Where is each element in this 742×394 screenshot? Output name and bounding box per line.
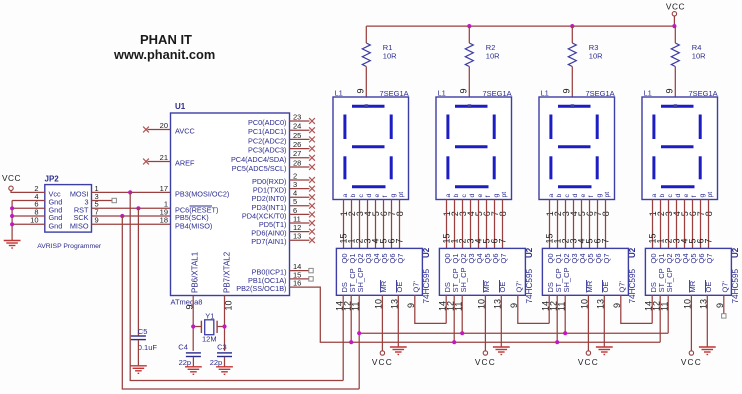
svg-text:Q7': Q7' xyxy=(721,280,730,292)
svg-text:c: c xyxy=(564,194,571,198)
wire ST_CP bus from U1 PB2 xyxy=(290,287,661,342)
wire U1 PD5(T1) stub xyxy=(290,222,310,224)
wire Q7' chip4 stub xyxy=(723,295,725,313)
no-connect x PD5(T1) xyxy=(309,220,315,226)
svg-text:b: b xyxy=(350,194,357,198)
display segments col1 xyxy=(345,106,391,187)
wire U1 PC1(ADC1) stub xyxy=(290,129,310,131)
display common pin pad col3 xyxy=(571,104,575,108)
wire display seg g to 595 col3 xyxy=(597,200,599,249)
svg-text:e: e xyxy=(580,194,587,198)
wire U1 PD2(INT0) stub xyxy=(290,196,310,198)
resistor R1 xyxy=(362,43,370,67)
wire display seg c to 595 col2 xyxy=(462,200,464,249)
wire display seg d to 595 col2 xyxy=(470,200,472,249)
svg-text:AVRISP Programmer: AVRISP Programmer xyxy=(37,243,102,250)
svg-text:e: e xyxy=(374,194,381,198)
display common pin pad col2 xyxy=(468,104,472,108)
svg-text:e: e xyxy=(477,194,484,198)
wire C3 to ground xyxy=(224,357,226,367)
wire Q7' chip1 to DS chip2 xyxy=(415,295,446,323)
wire U1 PC4(ADC4/SDA) stub xyxy=(290,157,310,159)
svg-text:74HC595: 74HC595 xyxy=(422,268,431,303)
unconnected square PB0 xyxy=(309,268,313,272)
connector JP2 box xyxy=(45,185,92,233)
wire display seg f to 595 col4 xyxy=(692,200,694,249)
junction rail R3 xyxy=(570,24,574,28)
svg-text:PB7/XTAL2: PB7/XTAL2 xyxy=(223,251,232,293)
svg-text:f: f xyxy=(691,196,698,198)
no-connect x PC3(ADC3) xyxy=(309,146,315,152)
svg-text:U2: U2 xyxy=(525,247,534,258)
wire U1 PC5(ADC5/SCL) stub xyxy=(290,166,310,168)
wire display seg e to 595 col2 xyxy=(478,200,480,249)
ground OE col2 xyxy=(493,347,510,355)
overline RESET xyxy=(190,205,213,207)
junction SH bus chip3 xyxy=(563,331,567,335)
wire JP2 Vcc pin2 to VCC xyxy=(11,191,45,193)
svg-text:74HC595: 74HC595 xyxy=(731,268,740,303)
svg-text:18: 18 xyxy=(160,216,168,225)
no-connect x PC4(ADC4/SDA) xyxy=(309,155,315,161)
junction XTAL2 crystal xyxy=(222,324,226,328)
wire SCK net JP2 to U1 PB5 xyxy=(92,215,171,217)
display segments col4 xyxy=(654,106,700,187)
svg-text:a: a xyxy=(651,194,658,198)
svg-text:28: 28 xyxy=(293,158,301,167)
svg-text:JP2: JP2 xyxy=(45,175,60,184)
wire VCC stem xyxy=(673,16,675,26)
ground OE col1 xyxy=(390,347,407,355)
wire DS chip2 down xyxy=(445,295,447,323)
svg-text:20: 20 xyxy=(160,121,168,130)
wire display seg f to 595 col1 xyxy=(383,200,385,249)
wire U1 PD4(XCK/T0) stub xyxy=(290,213,310,215)
ground JP2 xyxy=(4,241,21,249)
wire display seg b to 595 col1 xyxy=(351,200,353,249)
svg-text:www.phanit.com: www.phanit.com xyxy=(113,47,215,62)
resistor R3 xyxy=(568,43,576,67)
svg-text:SH_CP: SH_CP xyxy=(459,267,468,292)
no-connect x PD3(INT1) xyxy=(309,203,315,209)
wire display seg c to 595 col4 xyxy=(668,200,670,249)
svg-text:9: 9 xyxy=(459,88,469,93)
wire U1 PD6(AIN0) stub xyxy=(290,231,310,233)
svg-text:13: 13 xyxy=(293,232,301,241)
wire DS chip3 down xyxy=(548,295,550,323)
svg-text:PC5(ADC5/SCL): PC5(ADC5/SCL) xyxy=(232,164,287,173)
svg-text:10R: 10R xyxy=(383,52,397,61)
wire MOSI net JP2 to U1 PB3 xyxy=(92,191,171,193)
wire display seg f to 595 col3 xyxy=(589,200,591,249)
svg-text:d: d xyxy=(366,194,373,198)
svg-text:d: d xyxy=(469,194,476,198)
svg-text:Y1: Y1 xyxy=(205,311,214,320)
wire VCC rail xyxy=(366,25,674,27)
svg-text:21: 21 xyxy=(160,153,168,162)
wire MR to VCC col1 xyxy=(381,295,383,351)
display common pin pad col1 xyxy=(365,104,369,108)
svg-text:10R: 10R xyxy=(589,52,603,61)
wire crystal left lead xyxy=(193,326,201,328)
svg-text:L1: L1 xyxy=(541,88,549,97)
svg-text:PB6/XTAL1: PB6/XTAL1 xyxy=(191,251,200,293)
wire SH_CP bus xyxy=(359,332,668,334)
shift register U2 74HC595 (column 1) xyxy=(336,248,422,295)
svg-text:pt: pt xyxy=(707,192,714,198)
wire SH chip1 down xyxy=(358,295,360,389)
wire rail to R2 xyxy=(468,26,470,43)
svg-text:7SEG1A: 7SEG1A xyxy=(689,89,718,98)
svg-text:PC3(ADC3): PC3(ADC3) xyxy=(248,146,287,155)
display common pin pad col4 xyxy=(674,104,678,108)
svg-text:U2: U2 xyxy=(628,247,637,258)
VCC circle top-right xyxy=(672,12,676,16)
svg-text:10: 10 xyxy=(30,216,38,225)
svg-text:f: f xyxy=(485,196,492,198)
wire MR to VCC col2 xyxy=(484,295,486,351)
IC U1 ATmega8 box xyxy=(171,113,290,296)
svg-text:e: e xyxy=(683,194,690,198)
wire display seg e to 595 col1 xyxy=(375,200,377,249)
wire MR to VCC col3 xyxy=(587,295,589,351)
wire display seg d to 595 col1 xyxy=(367,200,369,249)
wire crystal right lead xyxy=(217,326,224,328)
wire MR to VCC col4 xyxy=(690,295,692,351)
svg-text:SH_CP: SH_CP xyxy=(356,267,365,292)
svg-text:7: 7 xyxy=(703,238,713,243)
svg-text:a: a xyxy=(342,194,349,198)
wire display seg d to 595 col3 xyxy=(573,200,575,249)
svg-text:9: 9 xyxy=(356,88,366,93)
svg-text:17: 17 xyxy=(160,184,168,193)
wire display seg e to 595 col3 xyxy=(581,200,583,249)
wire display seg b to 595 col4 xyxy=(660,200,662,249)
svg-text:a: a xyxy=(548,194,555,198)
svg-text:7SEG1A: 7SEG1A xyxy=(483,89,512,98)
wire JP2 Gnd pin8 xyxy=(12,215,45,217)
svg-text:d: d xyxy=(572,194,579,198)
crystal Y1 xyxy=(205,320,214,335)
wire SH chip2 down xyxy=(461,295,463,333)
ground C5 xyxy=(130,366,147,374)
svg-text:9: 9 xyxy=(562,88,572,93)
wire display seg a to 595 col1 xyxy=(343,200,345,249)
svg-text:16: 16 xyxy=(293,279,301,288)
capacitor C3 xyxy=(217,353,232,357)
wire display seg g to 595 col2 xyxy=(494,200,496,249)
svg-text:pt: pt xyxy=(501,192,508,198)
svg-text:VCC: VCC xyxy=(578,357,599,367)
wire OE to ground col3 xyxy=(603,295,605,347)
no-connect x PC1(ADC1) xyxy=(309,127,315,133)
wire display seg c to 595 col1 xyxy=(359,200,361,249)
wire C4 to ground xyxy=(192,357,194,367)
svg-text:VCC: VCC xyxy=(475,357,496,367)
wire DS chip1 to MOSI net xyxy=(130,192,343,380)
ground OE col3 xyxy=(596,347,613,355)
wire display seg pt to 595 col2 xyxy=(502,200,504,249)
wire JP2 Gnd pin6 xyxy=(12,207,45,209)
wire ST chip4 down xyxy=(659,295,661,342)
wire ST chip3 down xyxy=(556,295,558,342)
wire OE to ground col4 xyxy=(706,295,708,347)
VCC circle col2 xyxy=(483,351,487,355)
svg-text:PD7(AIN1): PD7(AIN1) xyxy=(251,237,286,246)
svg-text:g: g xyxy=(493,194,500,198)
wire display seg pt to 595 col1 xyxy=(399,200,401,249)
no-connect x PC2(ADC2) xyxy=(309,137,315,143)
ground C4 xyxy=(185,367,202,375)
svg-text:Q7: Q7 xyxy=(602,253,611,263)
svg-text:PHAN IT: PHAN IT xyxy=(140,32,192,47)
svg-text:10R: 10R xyxy=(486,52,500,61)
junction ST bus chip1 xyxy=(349,340,353,344)
svg-text:VCC: VCC xyxy=(372,357,393,367)
capacitor C5 xyxy=(131,336,146,340)
svg-text:Q7': Q7' xyxy=(412,280,421,292)
wire rail to R1 xyxy=(365,26,367,43)
svg-text:f: f xyxy=(588,196,595,198)
junction SCK drop xyxy=(120,214,124,218)
7-segment display L1 (column 2) xyxy=(436,97,512,200)
no-connect x PD2(INT0) xyxy=(309,194,315,200)
wire display seg b to 595 col2 xyxy=(454,200,456,249)
wire R3 to display xyxy=(571,67,573,98)
wire U1 PD1(TXD) stub xyxy=(290,188,310,190)
svg-text:7: 7 xyxy=(600,238,610,243)
svg-text:AREF: AREF xyxy=(175,159,195,168)
svg-text:22p: 22p xyxy=(179,358,192,367)
capacitor C4 xyxy=(186,353,201,357)
svg-text:PC4(ADC4/SDA): PC4(ADC4/SDA) xyxy=(231,155,287,164)
wire SH chip3 down xyxy=(564,295,566,333)
no-connect x PD6(AIN0) xyxy=(309,229,315,235)
svg-text:b: b xyxy=(556,194,563,198)
wire C5 to ground xyxy=(137,340,139,366)
no-connect x PD7(AIN1) xyxy=(309,237,315,243)
no-connect x PC5(ADC5/SCL) xyxy=(309,164,315,170)
svg-text:Q7': Q7' xyxy=(515,280,524,292)
no-connect x AREF xyxy=(143,159,149,165)
junction gnd pin10 xyxy=(10,222,14,226)
wire U1 PD3(INT1) stub xyxy=(290,205,310,207)
svg-text:10: 10 xyxy=(224,300,234,310)
svg-text:74HC595: 74HC595 xyxy=(525,268,534,303)
svg-text:c: c xyxy=(461,194,468,198)
wire rail to R4 xyxy=(674,26,676,43)
wire R4 to display xyxy=(674,67,676,98)
wire JP2 Gnd pin10 xyxy=(12,223,45,225)
junction MOSI drop xyxy=(128,190,132,194)
resistor R4 xyxy=(671,43,679,67)
svg-text:VCC: VCC xyxy=(2,173,21,183)
svg-text:SH_CP: SH_CP xyxy=(665,267,674,292)
svg-text:MISO: MISO xyxy=(70,221,89,230)
wire display seg pt to 595 col4 xyxy=(708,200,710,249)
svg-text:d: d xyxy=(675,194,682,198)
wire DS chip4 down xyxy=(651,295,653,323)
7-segment display L1 (column 1) xyxy=(333,97,409,200)
VCC circle col4 xyxy=(689,351,693,355)
junction rail R4 VCC xyxy=(672,24,676,28)
svg-text:b: b xyxy=(453,194,460,198)
wire OE to ground col2 xyxy=(500,295,502,347)
wire Q7' chip2 to DS chip3 xyxy=(518,295,549,323)
svg-text:Q7: Q7 xyxy=(499,253,508,263)
unconnected square PB1 xyxy=(309,277,313,281)
wire ST chip1 down xyxy=(350,295,352,342)
wire U1 PC2(ADC2) stub xyxy=(290,138,310,140)
wire RST net down to C5 xyxy=(137,208,139,336)
svg-text:7SEG1A: 7SEG1A xyxy=(380,89,409,98)
junction SH bus chip1 xyxy=(357,331,361,335)
wire display seg e to 595 col4 xyxy=(684,200,686,249)
svg-text:Q7': Q7' xyxy=(618,280,627,292)
junction XTAL1 crystal xyxy=(191,324,195,328)
wire RST net JP2 to U1 PC6 xyxy=(92,207,171,209)
svg-text:C3: C3 xyxy=(217,343,227,352)
svg-text:g: g xyxy=(390,194,397,198)
unconnected square Q7' chip4 xyxy=(722,314,726,318)
svg-text:12M: 12M xyxy=(202,335,217,344)
wire display seg f to 595 col2 xyxy=(486,200,488,249)
svg-text:7SEG1A: 7SEG1A xyxy=(586,89,615,98)
svg-text:9: 9 xyxy=(665,88,675,93)
wire display seg a to 595 col3 xyxy=(549,200,551,249)
wire XTAL2 net down to C3 xyxy=(224,296,226,351)
svg-text:c: c xyxy=(667,194,674,198)
no-connect x PD1(TXD) xyxy=(309,186,315,192)
svg-text:U1: U1 xyxy=(175,102,186,111)
VCC circle col1 xyxy=(380,351,384,355)
wire U1 PD7(AIN1) stub xyxy=(290,239,310,241)
wire R1 to display xyxy=(365,67,367,98)
wire JP2 ground rail xyxy=(11,201,13,241)
svg-text:U2: U2 xyxy=(731,247,740,258)
wire OE to ground col1 xyxy=(397,295,399,347)
shift register U2 74HC595 (column 4) xyxy=(645,248,731,295)
svg-text:g: g xyxy=(699,194,706,198)
svg-text:26: 26 xyxy=(293,140,301,149)
wire MISO net JP2 to U1 PB4 xyxy=(92,223,171,225)
junction gnd pin8 xyxy=(10,214,14,218)
ground C3 xyxy=(216,367,233,375)
svg-text:25: 25 xyxy=(293,131,301,140)
wire U1 PD0(RXD) stub xyxy=(290,179,310,181)
svg-text:VCC: VCC xyxy=(666,2,685,12)
7-segment display L1 (column 3) xyxy=(539,97,615,200)
svg-text:24: 24 xyxy=(293,122,301,131)
wire JP2 pin3 stub xyxy=(92,200,113,202)
wire U1 AVCC stub xyxy=(148,129,171,131)
svg-text:pt: pt xyxy=(604,192,611,198)
display segments col3 xyxy=(551,106,597,187)
wire DS chip1 down xyxy=(342,295,344,380)
svg-text:b: b xyxy=(659,194,666,198)
svg-text:10R: 10R xyxy=(692,52,706,61)
svg-text:Q7: Q7 xyxy=(396,253,405,263)
wire display seg a to 595 col4 xyxy=(652,200,654,249)
junction ST bus chip3 xyxy=(555,340,559,344)
wire display seg d to 595 col4 xyxy=(676,200,678,249)
wire display seg b to 595 col3 xyxy=(557,200,559,249)
svg-text:0.1uF: 0.1uF xyxy=(138,343,158,352)
wire rail to R3 xyxy=(571,26,573,43)
no-connect x AVCC xyxy=(143,127,149,133)
svg-text:74HC595: 74HC595 xyxy=(628,268,637,303)
junction SH bus chip2 xyxy=(460,331,464,335)
resistor R2 xyxy=(465,43,473,67)
svg-text:L1: L1 xyxy=(438,88,446,97)
svg-text:PC2(ADC2): PC2(ADC2) xyxy=(248,136,287,145)
wire R2 to display xyxy=(468,67,470,98)
svg-text:PB2(SS/OC1B): PB2(SS/OC1B) xyxy=(236,284,286,293)
wire display seg pt to 595 col3 xyxy=(605,200,607,249)
VCC circle top-left xyxy=(9,186,13,190)
wire SH chip4 down xyxy=(667,295,669,333)
shift register U2 74HC595 (column 3) xyxy=(542,248,628,295)
svg-text:VCC: VCC xyxy=(681,357,702,367)
svg-text:Gnd: Gnd xyxy=(49,221,63,230)
wire display seg c to 595 col3 xyxy=(565,200,567,249)
junction gnd pin6 xyxy=(10,206,14,210)
svg-text:9: 9 xyxy=(95,216,99,225)
svg-text:PC1(ADC1): PC1(ADC1) xyxy=(248,127,287,136)
svg-text:PB3(MOSI/OC2): PB3(MOSI/OC2) xyxy=(175,189,229,198)
wire U1 PB0 stub xyxy=(290,270,309,272)
svg-text:PB4(MISO): PB4(MISO) xyxy=(175,221,212,230)
wire XTAL1 net down to C4 xyxy=(192,296,194,351)
wire display seg g to 595 col1 xyxy=(391,200,393,249)
svg-text:L1: L1 xyxy=(335,88,343,97)
ground OE col4 xyxy=(699,347,716,355)
junction RST to C5 xyxy=(136,206,140,210)
junction rail R2 xyxy=(467,24,471,28)
svg-text:22p: 22p xyxy=(210,358,223,367)
wire U1 PC0(ADC0) stub xyxy=(290,120,310,122)
7-segment display L1 (column 4) xyxy=(642,97,718,200)
wire U1 PB1 stub xyxy=(290,278,309,280)
svg-text:7: 7 xyxy=(497,238,507,243)
wire display seg g to 595 col4 xyxy=(700,200,702,249)
svg-text:AVCC: AVCC xyxy=(175,127,195,136)
svg-text:C4: C4 xyxy=(178,343,188,352)
svg-text:a: a xyxy=(445,194,452,198)
wire U1 AREF stub xyxy=(148,161,171,163)
svg-text:7: 7 xyxy=(394,238,404,243)
svg-text:g: g xyxy=(596,194,603,198)
display segments col2 xyxy=(448,106,494,187)
svg-text:U2: U2 xyxy=(422,247,431,258)
svg-text:Q7: Q7 xyxy=(705,253,714,263)
wire U1 PC3(ADC3) stub xyxy=(290,148,310,150)
wire display seg a to 595 col2 xyxy=(446,200,448,249)
no-connect x PC0(ADC0) xyxy=(309,118,315,124)
svg-text:C5: C5 xyxy=(138,327,148,336)
junction ST bus chip2 xyxy=(452,340,456,344)
VCC circle col3 xyxy=(586,351,590,355)
wire ST chip2 down xyxy=(453,295,455,342)
no-connect x PD4(XCK/T0) xyxy=(309,212,315,218)
wire Q7' chip3 to DS chip4 xyxy=(621,295,652,323)
svg-text:c: c xyxy=(358,194,365,198)
no-connect x PD0(RXD) xyxy=(309,177,315,183)
svg-text:23: 23 xyxy=(293,112,301,121)
svg-text:pt: pt xyxy=(398,192,405,198)
svg-text:SH_CP: SH_CP xyxy=(562,267,571,292)
shift register U2 74HC595 (column 2) xyxy=(439,248,525,295)
